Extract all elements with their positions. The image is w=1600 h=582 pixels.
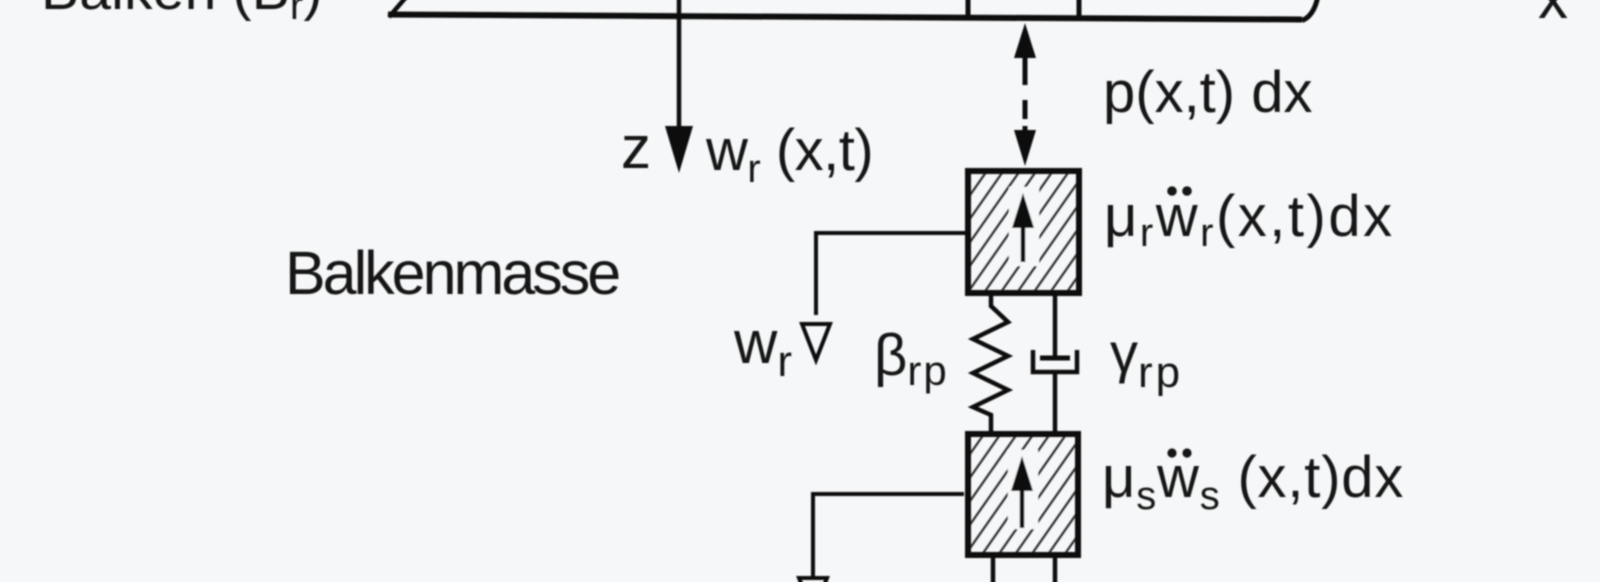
inertia arrow in Ms (1020, 487, 1025, 528)
damper cup (1033, 350, 1077, 372)
beam right end curved edge (1302, 0, 1318, 21)
beam (Balken) bottom edge line (388, 15, 1302, 20)
dx element cut tick left (966, 0, 971, 18)
dashed force arrow p(x,t)dx : upper arrowhead (1014, 23, 1036, 58)
open triangle pointer wr (802, 324, 830, 360)
damper piston plate (1040, 356, 1070, 361)
svg-text:wr (x,t): wr (x,t) (705, 118, 873, 191)
z axis line (677, 0, 682, 128)
clearance behind arrow in Ms (1008, 450, 1038, 529)
diaeresis dots over upper w (1167, 186, 1177, 196)
svg-text:x: x (1538, 0, 1568, 31)
svg-text:p(x,t) dx: p(x,t) dx (1103, 60, 1313, 125)
dx element cut tick right (1077, 0, 1082, 19)
mass box Ms (hatched) (968, 434, 1078, 555)
diaeresis dots over lower w (1167, 448, 1176, 457)
svg-text:z: z (621, 114, 651, 181)
inertia arrow in Mr (1021, 224, 1026, 262)
lower spring stub (cropped) (991, 557, 996, 582)
wire from Ms left side (813, 494, 964, 576)
spring beta_rp (973, 296, 1008, 431)
damper rod lower (1053, 372, 1058, 431)
clearance behind arrow in Mr (1009, 187, 1039, 266)
dashed force arrow stem dashes (1023, 56, 1028, 119)
wire from Mr left side (816, 233, 969, 315)
svg-text:Balkenmasse: Balkenmasse (285, 239, 619, 307)
damper gamma_rp rod upper (1053, 296, 1058, 357)
beam left end diagonal edge (389, 0, 407, 17)
lower damper stub (cropped) (1053, 557, 1058, 582)
mass box Mr (hatched) (968, 171, 1079, 293)
dashed force arrow lower arrowhead (1014, 130, 1036, 166)
z axis arrowhead (665, 126, 693, 173)
open triangle pointer ws (cropped at bottom) (799, 578, 827, 582)
